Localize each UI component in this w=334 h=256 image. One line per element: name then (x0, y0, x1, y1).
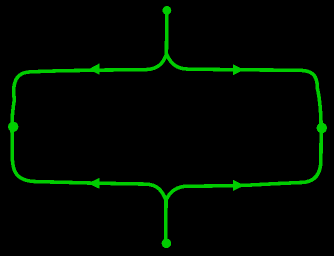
wire: bottom stem from bottom junction to node B (164, 200, 168, 242)
wire: right branch loop (top junction, top edge, right edge, bottom edge, to bottom junction) (166, 55, 321, 200)
arrowhead: top-right, pointing right (233, 64, 244, 75)
arrowhead: top-left, pointing left (88, 63, 99, 74)
wire: top stem from node T to top junction (165, 12, 169, 55)
arrowhead: bottom-right, pointing right (233, 180, 244, 191)
wire: left branch loop (top junction, top edge, left edge, bottom edge, to bottom junction) (12, 55, 166, 200)
node T (top terminal dot) (163, 6, 172, 15)
arrowhead: bottom-left, pointing left (88, 178, 99, 189)
node B (bottom terminal dot) (162, 239, 172, 249)
node L (left mid dot) (8, 122, 18, 132)
node R (right mid dot) (317, 123, 327, 133)
